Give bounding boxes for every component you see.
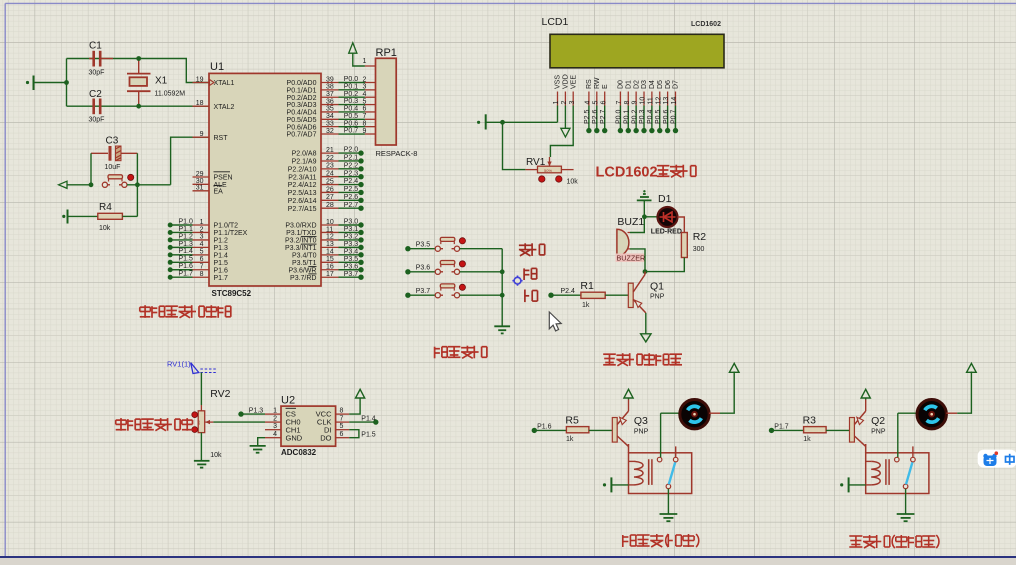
- node: VSS/RV1 junction: [500, 120, 505, 125]
- ground (power rail, relay coil): [603, 477, 629, 492]
- svg-text:21: 21: [326, 147, 334, 154]
- svg-text:9: 9: [200, 131, 204, 138]
- svg-text:19: 19: [196, 76, 204, 83]
- svg-text:16: 16: [326, 264, 334, 271]
- svg-text:LCD1602: LCD1602: [691, 21, 721, 28]
- svg-text:P2.0/A8: P2.0/A8: [292, 151, 317, 158]
- net labels P2.0-P2.7 (right stubs): [339, 147, 364, 211]
- bus terminal arrow (reset, pointing left): [59, 181, 92, 188]
- wire button to bus: [460, 248, 503, 250]
- svg-text:4: 4: [273, 431, 277, 438]
- svg-text:30pF: 30pF: [89, 117, 105, 124]
- wire RV2 wiper to CH0: [213, 421, 265, 423]
- svg-text:34: 34: [326, 113, 334, 120]
- wire relay NO contact to motor: [898, 413, 916, 457]
- ground (power rail terminal, R4): [62, 210, 98, 224]
- svg-text:P1.5: P1.5: [214, 260, 229, 267]
- svg-text:8: 8: [200, 271, 204, 278]
- svg-text:E: E: [602, 84, 609, 89]
- svg-text:10k: 10k: [567, 179, 579, 186]
- svg-text:10k: 10k: [210, 452, 222, 459]
- wire GND pin to ground: [258, 438, 265, 446]
- svg-text:12: 12: [326, 234, 334, 241]
- wire buzzer top to junction: [630, 217, 644, 233]
- svg-text:RST: RST: [214, 135, 229, 142]
- svg-text:7: 7: [616, 101, 623, 105]
- label: 减 (minus): [525, 290, 538, 303]
- ground (buttons): [494, 326, 510, 333]
- wire junction down to RV1 left: [503, 122, 526, 169]
- svg-text:D5: D5: [657, 80, 664, 89]
- svg-text:ADC0832: ADC0832: [281, 448, 317, 457]
- svg-text:P2.6: P2.6: [344, 194, 359, 201]
- svg-text:P2.4/A12: P2.4/A12: [288, 182, 317, 189]
- svg-text:14: 14: [326, 249, 334, 256]
- svg-text:P2.7/A15: P2.7/A15: [288, 206, 317, 213]
- power terminal arrow (motor): [729, 363, 739, 372]
- ground (relay switch): [897, 514, 915, 521]
- wire probe to RV2 top: [200, 373, 202, 411]
- svg-text:1: 1: [200, 219, 204, 226]
- wire button to bus: [460, 294, 503, 296]
- wire DI-DO loop (P1.5): [349, 430, 376, 439]
- LED D1 LED-RED: [647, 193, 682, 236]
- svg-text:PNP: PNP: [871, 429, 886, 436]
- wire R3 to Q2 base: [826, 429, 850, 431]
- svg-text:11: 11: [326, 226, 333, 233]
- svg-text:24: 24: [326, 171, 334, 178]
- voltage probe RV1(1) (blue): [167, 360, 217, 374]
- capacitor C3 10uF (polarized): [91, 136, 137, 172]
- transistor Q2 PNP: [850, 411, 886, 453]
- svg-text:P0.7/AD7: P0.7/AD7: [287, 132, 317, 139]
- svg-text:5: 5: [363, 98, 367, 105]
- svg-text:31: 31: [196, 185, 204, 192]
- svg-text:Q3: Q3: [634, 415, 648, 427]
- svg-text:17: 17: [326, 271, 334, 278]
- wire riser up to RST pin: [171, 137, 209, 185]
- svg-text:9: 9: [632, 101, 639, 105]
- svg-text:3: 3: [569, 101, 576, 105]
- svg-text:P0.2: P0.2: [344, 91, 359, 98]
- svg-text:C2: C2: [89, 89, 102, 100]
- svg-text:11.0592M: 11.0592M: [155, 91, 186, 98]
- svg-text:1: 1: [273, 407, 277, 414]
- wire ground to LED/buzzer junction: [643, 200, 645, 216]
- svg-text:22: 22: [326, 155, 334, 162]
- label: 天然气值调节 (gas value adjust): [116, 418, 193, 431]
- svg-text:C3: C3: [106, 136, 119, 147]
- svg-text:STC89C52: STC89C52: [212, 289, 252, 298]
- origin marker (blue crosshair): [512, 276, 522, 286]
- svg-text:D1: D1: [658, 193, 672, 205]
- resistor pack RP1 RESPACK-8: [363, 47, 418, 158]
- resistor R2 300: [681, 231, 706, 258]
- svg-text:GND: GND: [286, 433, 303, 442]
- svg-text:50%: 50%: [544, 168, 552, 173]
- svg-text:10k: 10k: [99, 225, 111, 232]
- svg-text:P3.1/TXD: P3.1/TXD: [286, 230, 316, 237]
- svg-text:RP1: RP1: [376, 47, 397, 59]
- relay (coil + switch): [866, 446, 929, 493]
- ground (power rail terminal, top-left): [26, 76, 34, 91]
- svg-text:P0.1/AD1: P0.1/AD1: [287, 87, 317, 94]
- svg-text:P1.7: P1.7: [214, 275, 229, 282]
- svg-text:3: 3: [363, 84, 367, 91]
- svg-text:P0.6/AD6: P0.6/AD6: [287, 124, 317, 131]
- svg-text:1k: 1k: [582, 302, 590, 309]
- svg-text:D0: D0: [618, 80, 625, 89]
- svg-text:P1.6: P1.6: [214, 267, 229, 274]
- svg-text:P0.5: P0.5: [344, 113, 359, 120]
- svg-text:1k: 1k: [566, 436, 574, 443]
- svg-text:XTAL2: XTAL2: [214, 104, 235, 111]
- wire C3 right leg down to R4 row: [136, 153, 138, 216]
- ground (inverted, alarm top): [637, 190, 652, 200]
- svg-text:R1: R1: [580, 280, 594, 292]
- svg-text:4: 4: [363, 91, 367, 98]
- svg-text:P0.0: P0.0: [344, 76, 359, 83]
- svg-text:PSEN: PSEN: [214, 175, 233, 182]
- svg-text:35: 35: [326, 106, 334, 113]
- svg-text:P2.5: P2.5: [344, 186, 359, 193]
- svg-text:8: 8: [340, 407, 344, 414]
- svg-text:LCD1: LCD1: [542, 16, 569, 28]
- svg-text:DO: DO: [320, 433, 331, 442]
- svg-text:1: 1: [363, 58, 367, 65]
- svg-text:P1.3: P1.3: [249, 407, 264, 414]
- svg-text:P2.3/A11: P2.3/A11: [288, 174, 316, 181]
- net labels P1.0-P1.7 (left stubs): [168, 218, 193, 279]
- svg-text:P2.2: P2.2: [344, 162, 359, 169]
- svg-text:P3.1: P3.1: [344, 226, 359, 233]
- svg-text:P0.3/AD3: P0.3/AD3: [287, 102, 317, 109]
- net label P3.5 (button): [405, 242, 435, 252]
- svg-text:P3.0/RXD: P3.0/RXD: [285, 223, 316, 230]
- svg-text:R4: R4: [99, 202, 112, 213]
- capacitor C1 30pF: [89, 41, 114, 77]
- wire relay common to ground: [667, 489, 669, 514]
- wire VSS to ground: [486, 106, 557, 123]
- ground arrow (down, Q1): [641, 334, 651, 342]
- svg-text:R2: R2: [693, 231, 707, 243]
- ground (RV2): [194, 461, 210, 468]
- svg-text:P3.5/T1: P3.5/T1: [292, 260, 317, 267]
- wire button bus down to ground: [500, 249, 505, 327]
- wire VDD to power-down arrow: [561, 106, 570, 138]
- svg-text:P3.5: P3.5: [344, 256, 359, 263]
- svg-text:38: 38: [326, 84, 334, 91]
- svg-text:P0.4: P0.4: [647, 109, 654, 124]
- svg-text:13: 13: [326, 241, 334, 248]
- node: collector junction: [643, 269, 648, 274]
- svg-text:5: 5: [592, 101, 599, 105]
- svg-text:27: 27: [326, 194, 334, 201]
- svg-text:VSS: VSS: [555, 75, 562, 89]
- label: 加 (plus): [524, 268, 537, 280]
- wire C2 row to XTAL2: [67, 105, 210, 107]
- node: buzzer/LED junction: [642, 214, 647, 219]
- motor (fan): [680, 400, 709, 429]
- power terminal arrow (RP1 pin1): [349, 43, 365, 66]
- svg-text:P1.2: P1.2: [214, 238, 229, 245]
- svg-text:300: 300: [693, 246, 705, 253]
- svg-text:9: 9: [363, 128, 367, 135]
- transistor Q3 PNP: [612, 411, 648, 453]
- svg-text:26: 26: [326, 186, 334, 193]
- svg-text:P1.1: P1.1: [179, 226, 194, 233]
- svg-text:P2.7: P2.7: [600, 109, 607, 124]
- svg-text:P0.6: P0.6: [663, 109, 670, 124]
- svg-text:11: 11: [647, 97, 654, 104]
- LCD display LCD1 LCD1602 (green screen): [542, 16, 725, 68]
- svg-text:P0.7: P0.7: [671, 109, 678, 124]
- svg-text:RS: RS: [586, 79, 593, 89]
- svg-text:50: 50: [196, 420, 201, 425]
- net label P1.6: [532, 423, 567, 433]
- wire R5 to Q3 base: [589, 429, 613, 431]
- svg-text:P3.5: P3.5: [416, 242, 431, 249]
- svg-text:P1.7: P1.7: [774, 423, 789, 430]
- svg-text:P1.7: P1.7: [179, 271, 194, 278]
- svg-text:P2.0: P2.0: [344, 147, 359, 154]
- wire Q3 emitter to power arrow: [628, 399, 630, 411]
- svg-text:P2.4: P2.4: [561, 288, 576, 295]
- wire LED to R2: [678, 217, 685, 233]
- svg-text:P3.4: P3.4: [344, 248, 359, 255]
- svg-text:10: 10: [640, 97, 647, 105]
- svg-text:LCD1602: LCD1602: [596, 165, 658, 181]
- svg-text:Q2: Q2: [871, 415, 885, 427]
- U1 right pins P0.0-P0.7: [287, 76, 339, 138]
- svg-text:P0.3: P0.3: [639, 109, 646, 124]
- svg-text:P3.2/INT0: P3.2/INT0: [285, 238, 317, 245]
- svg-text:14: 14: [671, 97, 678, 105]
- svg-text:4: 4: [585, 101, 592, 105]
- push button P3.7: [435, 284, 465, 298]
- svg-text:P3.7/RD: P3.7/RD: [290, 275, 316, 282]
- net label P3.7 (button): [405, 288, 435, 298]
- svg-text:P0.1: P0.1: [344, 83, 359, 90]
- ground (power rail terminal, LCD VSS): [477, 114, 486, 129]
- svg-text:36: 36: [326, 98, 334, 105]
- capacitor C2 30pF: [89, 89, 105, 124]
- wire relay NO contact to motor: [661, 413, 679, 457]
- resistor R5 1k: [565, 414, 589, 443]
- svg-text:RV1(1): RV1(1): [167, 360, 191, 369]
- power terminal arrow (U2 VCC): [349, 389, 365, 414]
- svg-text:P3.2: P3.2: [344, 234, 359, 241]
- svg-text:5: 5: [200, 249, 204, 256]
- svg-text:P3.6/WR: P3.6/WR: [288, 267, 316, 274]
- svg-text:29: 29: [196, 171, 204, 178]
- label: 继电器(风扇) (relay fan): [623, 534, 699, 547]
- resistor R3 1k: [803, 414, 827, 443]
- svg-text:P0.0: P0.0: [616, 109, 623, 124]
- svg-text:P1.0: P1.0: [179, 218, 194, 225]
- svg-text:32: 32: [326, 128, 334, 135]
- svg-text:P2.1: P2.1: [344, 155, 359, 162]
- svg-text:PNP: PNP: [634, 429, 649, 436]
- watermark badge (blue bear + 中): [978, 450, 1016, 468]
- svg-text:8: 8: [624, 101, 631, 105]
- svg-text:PNP: PNP: [650, 293, 665, 300]
- svg-text:13: 13: [663, 97, 670, 105]
- microcontroller U1 STC89C52: [209, 61, 321, 298]
- U2 pins: [265, 407, 349, 442]
- wire R4 to riser: [122, 215, 137, 217]
- svg-text:P0.3: P0.3: [344, 98, 359, 105]
- node: crystal top junction: [136, 56, 141, 61]
- U1 right pins P3.0-P3.7: [285, 219, 339, 282]
- wire VEE down to RV1 wiper: [550, 106, 573, 158]
- label: 独立按键 (independent buttons): [435, 346, 487, 359]
- svg-text:7: 7: [340, 415, 344, 422]
- resistor R1 1k: [580, 280, 605, 309]
- svg-text:C1: C1: [89, 41, 102, 52]
- svg-text:P0.5/AD5: P0.5/AD5: [287, 117, 317, 124]
- svg-text:P3.0: P3.0: [344, 219, 359, 226]
- svg-text:P1.1/T2EX: P1.1/T2EX: [214, 230, 248, 237]
- ADC U2 ADC0832: [281, 395, 336, 457]
- resistor R4 10k: [98, 202, 123, 232]
- svg-text:18: 18: [196, 100, 204, 107]
- power terminal arrow (Q3): [624, 389, 633, 399]
- wires P0 bus to RP1: [339, 76, 365, 135]
- svg-text:P2.4: P2.4: [344, 178, 359, 185]
- svg-text:P2.5: P2.5: [584, 109, 591, 124]
- svg-text:P1.3: P1.3: [214, 245, 229, 252]
- svg-text:P2.1/A9: P2.1/A9: [292, 159, 317, 166]
- wire button to bus: [460, 271, 503, 273]
- svg-text:VDD: VDD: [563, 74, 570, 89]
- U1 left control pins (XTAL1,XTAL2,RST,PSEN,ALE,EA): [193, 76, 235, 195]
- push button P3.5: [435, 237, 465, 251]
- label: 声光报警电路 (sound-light alarm): [603, 353, 682, 366]
- svg-text:P2.5/A13: P2.5/A13: [288, 190, 317, 197]
- wire C3 left leg down to button: [90, 153, 92, 185]
- svg-text:P1.5: P1.5: [361, 431, 376, 438]
- svg-text:8: 8: [363, 120, 367, 127]
- svg-text:RESPACK-8: RESPACK-8: [376, 149, 418, 158]
- svg-text:P3.3: P3.3: [344, 241, 359, 248]
- svg-text:P1.4: P1.4: [214, 252, 229, 259]
- label: 继电器(净化器) (relay purifier): [849, 535, 939, 548]
- svg-text:33: 33: [326, 120, 334, 127]
- svg-text:P1.3: P1.3: [179, 241, 194, 248]
- node: RST riser junction: [135, 182, 140, 187]
- svg-text:P3.6: P3.6: [416, 265, 431, 272]
- svg-text:7: 7: [200, 264, 204, 271]
- label: LCD1602显示屏: [596, 165, 696, 181]
- potentiometer RV1 10k: [525, 157, 578, 186]
- potentiometer RV2 10k: [192, 388, 231, 459]
- svg-text:P0.1: P0.1: [623, 109, 630, 124]
- svg-text:D4: D4: [649, 80, 656, 89]
- label: 单片机最小系统 (MCU minimal system): [140, 305, 231, 318]
- svg-text:P1.0/T2: P1.0/T2: [214, 223, 239, 230]
- ground (power rail, relay coil): [840, 477, 866, 492]
- ground (U2): [250, 446, 266, 453]
- transistor Q1 PNP: [628, 272, 664, 313]
- node: crystal bottom junction: [136, 104, 141, 109]
- svg-text:2: 2: [273, 415, 277, 422]
- svg-text:X1: X1: [155, 76, 168, 87]
- svg-text:6: 6: [363, 106, 367, 113]
- svg-text:5: 5: [340, 423, 344, 430]
- svg-text:P1.4: P1.4: [361, 415, 376, 422]
- svg-text:P3.7: P3.7: [416, 288, 431, 295]
- svg-text:P2.2/A10: P2.2/A10: [288, 166, 317, 173]
- svg-text:7: 7: [363, 113, 367, 120]
- svg-text:P1.4: P1.4: [179, 248, 194, 255]
- svg-text:10uF: 10uF: [105, 164, 121, 171]
- svg-text:23: 23: [326, 163, 334, 170]
- svg-text:BUZZER: BUZZER: [617, 254, 646, 263]
- svg-text:P2.3: P2.3: [344, 170, 359, 177]
- svg-text:1k: 1k: [803, 436, 811, 443]
- svg-text:P0.4/AD4: P0.4/AD4: [287, 110, 317, 117]
- svg-text:1: 1: [553, 101, 560, 105]
- wire motor to power arrow: [709, 372, 734, 414]
- push button P3.6: [435, 261, 465, 275]
- svg-text:D1: D1: [625, 80, 632, 89]
- svg-text:6: 6: [200, 256, 204, 263]
- svg-text:P2.6: P2.6: [592, 109, 599, 124]
- svg-text:D3: D3: [641, 80, 648, 89]
- wire relay common to ground: [905, 489, 907, 514]
- svg-text:P1.5: P1.5: [179, 256, 194, 263]
- svg-text:U2: U2: [281, 395, 295, 407]
- svg-text:P0.5: P0.5: [655, 109, 662, 124]
- svg-text:P2.7: P2.7: [344, 202, 359, 209]
- motor (fan): [917, 400, 946, 429]
- svg-text:P3.6: P3.6: [344, 263, 359, 270]
- svg-text:RV2: RV2: [210, 388, 230, 400]
- net labels P3.0-P3.7 (right stubs): [339, 219, 364, 280]
- svg-text:VEE: VEE: [570, 75, 577, 89]
- wire buzzer bottom to collector junction: [630, 249, 645, 272]
- svg-text:R3: R3: [803, 414, 817, 426]
- net label P1.7: [769, 423, 804, 433]
- svg-text:P0.0/AD0: P0.0/AD0: [287, 80, 317, 87]
- svg-text:2: 2: [200, 226, 204, 233]
- wire CLK to P1.4: [349, 415, 378, 425]
- svg-text:R5: R5: [565, 414, 579, 426]
- LCD pins 1-14 (VSS VDD VEE RS RW E D0-D7): [553, 74, 680, 105]
- svg-text:D6: D6: [665, 80, 672, 89]
- svg-text:P3.7: P3.7: [344, 271, 359, 278]
- svg-text:D7: D7: [673, 80, 680, 89]
- svg-text:37: 37: [326, 91, 334, 98]
- svg-text:LED-RED: LED-RED: [651, 229, 682, 236]
- svg-text:25: 25: [326, 178, 334, 185]
- wire motor to power arrow: [946, 372, 971, 414]
- power terminal arrow (Q2): [861, 389, 870, 399]
- svg-text:RW: RW: [594, 77, 601, 89]
- svg-text:6: 6: [340, 431, 344, 438]
- svg-text:BUZ1: BUZ1: [617, 216, 644, 228]
- svg-text:10: 10: [326, 219, 334, 226]
- svg-text:15: 15: [326, 256, 334, 263]
- wire RV2 bottom to ground: [200, 433, 202, 461]
- svg-text:P2.6/A14: P2.6/A14: [288, 198, 317, 205]
- svg-text:U1: U1: [210, 61, 224, 73]
- svg-text:P1.2: P1.2: [179, 233, 194, 240]
- net label P1.3: [238, 407, 265, 417]
- mouse cursor: [549, 312, 561, 331]
- svg-text:4: 4: [200, 241, 204, 248]
